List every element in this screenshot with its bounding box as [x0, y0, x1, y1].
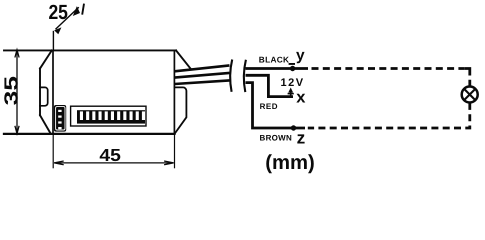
svg-text:RED: RED	[260, 102, 278, 111]
terminal tick before y	[289, 63, 295, 65]
brown wire (z)	[246, 83, 306, 128]
red wire (12V x)	[246, 75, 294, 96]
sensor module outline	[4, 50, 191, 133]
case seam line right (also 45-dim extension)	[173, 50, 175, 134]
svg-text:z: z	[297, 127, 306, 147]
wire 2 (middle) from module to break	[175, 73, 230, 78]
top-right chamfer	[176, 50, 191, 68]
bottom edge with left extension	[4, 133, 175, 135]
bottom-left chamfer	[40, 115, 50, 133]
cable break arc left	[230, 60, 232, 92]
wire 1 (top) from module to break	[175, 65, 230, 71]
lamp symbol	[462, 87, 478, 103]
svg-text:25: 25	[48, 1, 68, 24]
top edge with left extension	[4, 49, 176, 51]
wire 3 (bottom) from module to break	[175, 80, 230, 84]
terminal block (black connector)	[54, 105, 66, 132]
svg-text:BROWN: BROWN	[260, 133, 293, 142]
black wire (y)	[246, 67, 309, 70]
svg-text:(mm): (mm)	[265, 152, 315, 174]
case seam line left (also 45-dim extension)	[52, 50, 54, 134]
12V polarity arrow	[288, 88, 294, 97]
dimension 25 oblique leader	[53, 4, 84, 50]
svg-text:35: 35	[1, 75, 22, 105]
dimension 35 vertical line with arrows	[15, 50, 19, 134]
dashed external wire bottom	[308, 103, 470, 128]
DIP switch strip	[71, 106, 146, 126]
left clip bump	[40, 87, 48, 105]
cable break arc right	[244, 60, 246, 92]
svg-text:x: x	[296, 88, 306, 106]
svg-text:12V: 12V	[281, 77, 305, 89]
svg-text:45: 45	[99, 145, 121, 165]
dimension 45 horizontal line with arrows	[54, 161, 173, 165]
dashed external wire top	[312, 67, 465, 70]
junction dot y	[290, 66, 295, 71]
svg-text:y: y	[296, 47, 305, 64]
right wire-exit flap	[175, 87, 187, 133]
svg-text:BLACK: BLACK	[259, 55, 290, 65]
top-left chamfer	[40, 50, 52, 68]
left edge	[39, 69, 41, 116]
junction dot z	[291, 125, 296, 130]
